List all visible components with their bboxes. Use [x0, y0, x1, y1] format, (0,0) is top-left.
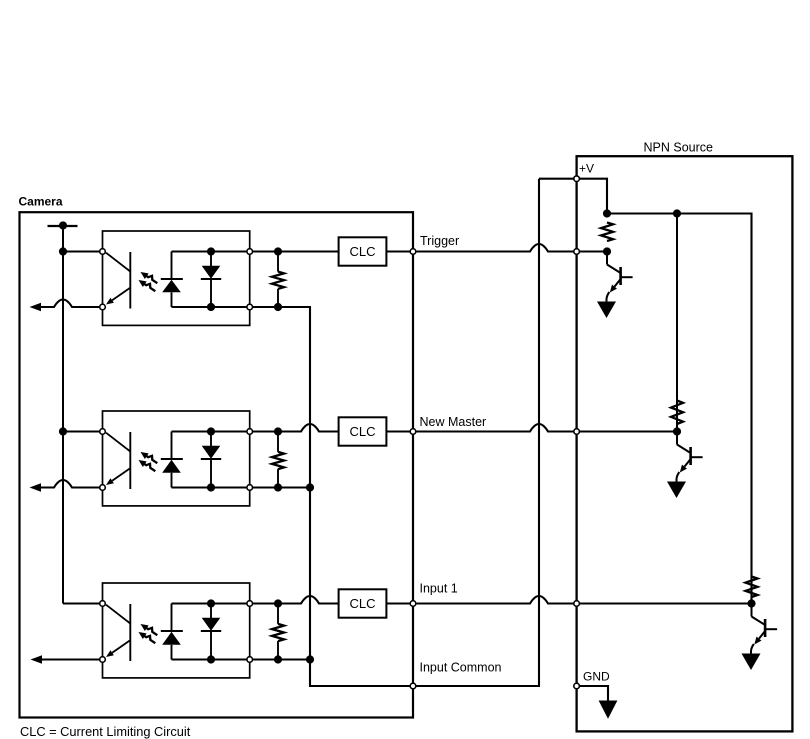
svg-text:CLC = Current Limiting Circuit: CLC = Current Limiting Circuit	[20, 724, 191, 739]
svg-text:Camera: Camera	[19, 195, 63, 209]
svg-text:CLC: CLC	[349, 596, 375, 611]
svg-text:Input 1: Input 1	[420, 582, 458, 596]
svg-text:New Master: New Master	[420, 415, 487, 429]
svg-text:Input Common: Input Common	[420, 661, 502, 675]
svg-text:+V: +V	[579, 162, 594, 176]
svg-text:CLC: CLC	[349, 244, 375, 259]
svg-text:Trigger: Trigger	[420, 234, 459, 248]
svg-text:NPN Source: NPN Source	[644, 140, 714, 154]
svg-text:GND: GND	[583, 670, 610, 684]
svg-text:CLC: CLC	[349, 424, 375, 439]
